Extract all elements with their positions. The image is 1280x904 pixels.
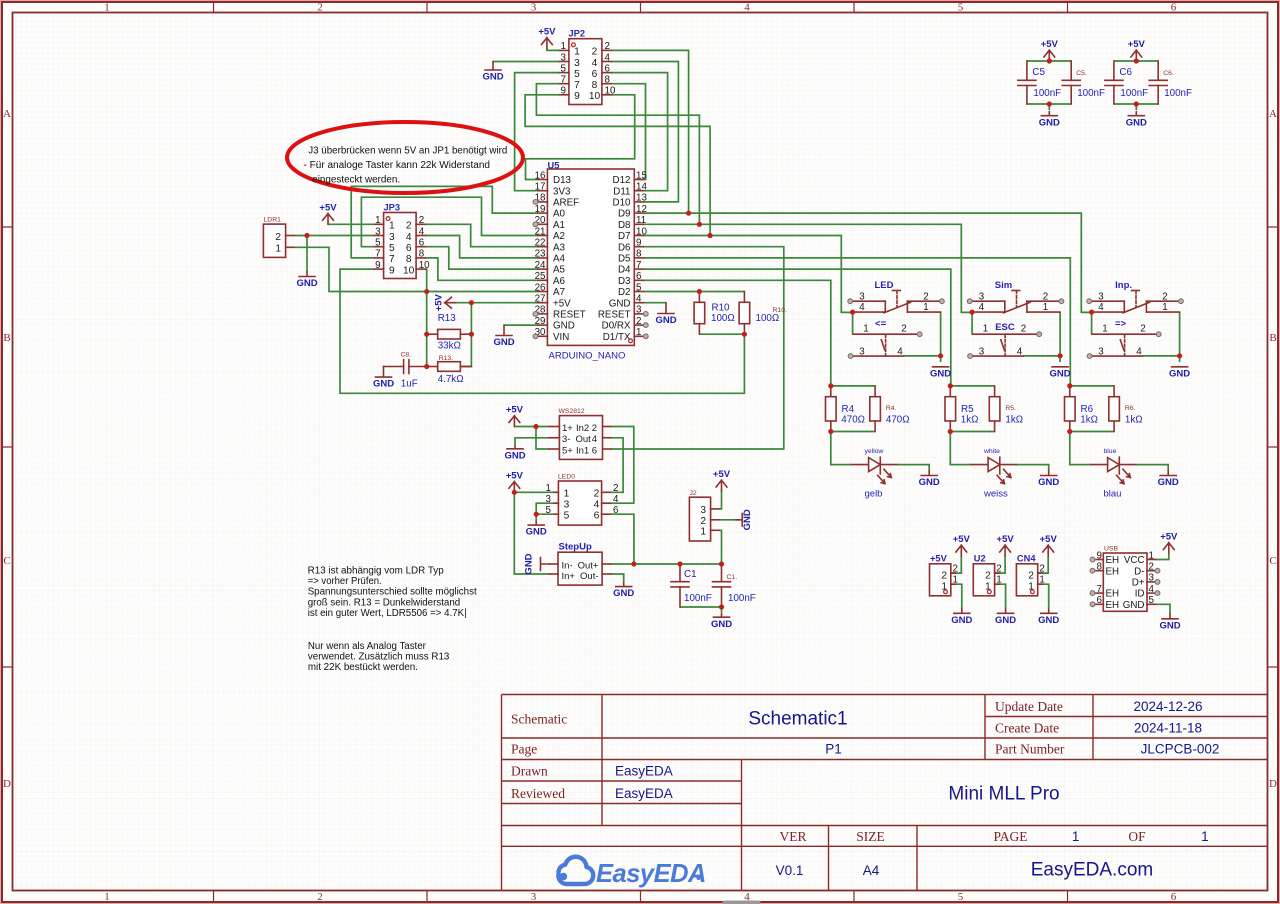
power +5V at U5 pin27 (rotated) [434,293,456,311]
svg-text:1: 1 [996,575,1001,586]
svg-text:2: 2 [1162,291,1167,302]
wire R6/blau bottom link [1070,431,1114,433]
svg-text:Sim: Sim [995,280,1012,291]
svg-text:21: 21 [535,226,546,237]
svg-text:7: 7 [389,254,395,265]
svg-text:4: 4 [636,294,642,305]
svg-text:3: 3 [859,346,865,357]
svg-text:3: 3 [531,2,537,14]
svg-text:1kΩ: 1kΩ [1005,414,1023,425]
resistor R6 [1065,386,1076,432]
svg-text:verwendet. Zusätzlich muss R13: verwendet. Zusätzlich muss R13 [308,651,450,662]
svg-text:7: 7 [636,260,641,271]
resistor R13 [427,329,472,339]
capacitor C8 [384,360,427,374]
LED blau (blue) [1091,457,1136,483]
svg-text:OF: OF [1128,829,1146,844]
wire U5 D6 to WS2812 In1 [611,247,784,449]
svg-text:VER: VER [780,829,807,844]
svg-text:Part Number: Part Number [995,742,1065,757]
svg-text:StepUp: StepUp [559,542,592,553]
svg-text:A4: A4 [863,863,880,878]
svg-text:1: 1 [1162,302,1167,313]
svg-text:6: 6 [592,69,598,80]
svg-text:9: 9 [561,86,566,97]
power +5V at J2 [713,469,731,491]
wire R5/weiss LED cathode to GND [1016,465,1048,471]
svg-text:4: 4 [1098,302,1104,313]
svg-text:P1: P1 [825,742,842,757]
wire R5/weiss to LED anode [950,432,971,465]
svg-text:GND: GND [296,278,317,289]
svg-text:+5V: +5V [713,469,731,480]
wire U5 D4 to R5 [643,269,951,386]
svg-text:+5V: +5V [319,202,337,213]
wire WS2812 +5V to pin1 [514,426,549,428]
ground at Sim switch [1050,367,1071,380]
resistor R5. [989,386,1000,432]
svg-text:GND: GND [1126,117,1147,128]
svg-text:9: 9 [389,265,395,276]
wire U5 D8 to Sim switch [643,224,972,312]
svg-text:Mini MLL Pro: Mini MLL Pro [948,784,1059,805]
power +5V at JP2 [538,27,556,49]
svg-text:white: white [983,448,1000,455]
title block text [511,699,1219,881]
svg-text:JP2: JP2 [569,29,586,39]
svg-text:D0/RX: D0/RX [602,321,631,332]
svg-text:5: 5 [375,238,381,249]
svg-text:27: 27 [535,294,546,305]
svg-text:ID: ID [1135,589,1145,600]
svg-text:4: 4 [1136,346,1142,357]
svg-text:3: 3 [1149,573,1155,584]
connector JP3 [375,213,431,279]
svg-text:GND: GND [553,321,575,332]
svg-text:2: 2 [996,563,1001,574]
svg-text:1uF: 1uF [401,379,418,390]
svg-text:16: 16 [535,170,546,181]
wire U5 D2 to R10 [643,291,744,293]
svg-text:Page: Page [511,742,537,757]
svg-text:EH: EH [1106,589,1120,600]
svg-text:R13: R13 [438,313,457,324]
wire CN4 pin1 to GND [1038,584,1049,608]
wire StepUp Out+ rail [611,563,722,565]
svg-text:4: 4 [1017,346,1023,357]
svg-text:2: 2 [941,571,947,582]
wire C5 +5V rail [1027,60,1071,62]
svg-text:9: 9 [1097,550,1102,561]
svg-text:5: 5 [546,505,552,516]
svg-text:1: 1 [564,489,570,500]
svg-text:C5.: C5. [1076,70,1087,77]
svg-text:blue: blue [1104,448,1117,455]
svg-text:25: 25 [535,271,546,282]
svg-text:RESET: RESET [553,310,586,321]
IC U5 ARDUINO_NANO [535,169,648,345]
svg-text:+5V: +5V [1041,39,1059,50]
svg-text:1: 1 [983,324,988,335]
svg-text:LED: LED [875,280,894,291]
power +5V at C5 [1041,39,1059,61]
svg-text:+5V: +5V [553,298,571,309]
svg-text:A: A [3,108,11,120]
wire U2 pin2 to +5V [995,556,1006,573]
wire JP2 pin9 to U5 D7 [525,95,710,236]
svg-text:D8: D8 [618,220,631,231]
svg-text:V0.1: V0.1 [776,863,804,878]
svg-text:D4: D4 [618,265,631,276]
power +5V at JP3 [319,202,337,224]
svg-text:3: 3 [1098,346,1104,357]
svg-text:4.7kΩ: 4.7kΩ [438,374,464,385]
svg-text:GND: GND [1038,615,1059,626]
svg-text:D: D [3,778,11,790]
svg-text:1: 1 [1102,324,1107,335]
svg-text:1: 1 [636,327,641,338]
svg-text:7: 7 [574,80,580,91]
ground at CN4 [1038,609,1059,626]
wire U5 D3 to R4 [643,280,831,386]
resistor R4 [826,386,837,432]
wire U5 D7 to LED switch [643,236,852,313]
svg-text:GND: GND [655,315,676,326]
svg-text:10: 10 [589,91,601,102]
svg-text:+5V: +5V [953,534,971,545]
svg-text:4: 4 [979,302,985,313]
wire LDR1 pin1 to U5 A7 [294,247,538,291]
svg-text:5: 5 [564,511,570,522]
svg-text:8: 8 [1097,562,1103,573]
svg-text:R13 ist abhängig vom LDR Typ: R13 ist abhängig vom LDR Typ [308,566,445,577]
svg-text:2: 2 [275,232,281,243]
wire R4/gelb top link [831,385,875,387]
svg-text:R6.: R6. [1125,405,1136,412]
svg-text:100Ω: 100Ω [756,313,780,324]
svg-text:1: 1 [953,575,958,586]
svg-text:9: 9 [636,238,641,249]
svg-text:4: 4 [897,346,903,357]
svg-text:eingesteckt werden.: eingesteckt werden. [312,174,400,185]
svg-text:10: 10 [403,265,415,276]
svg-text:1: 1 [561,41,566,52]
svg-text:6: 6 [594,511,600,522]
IC WS2812 [549,416,611,460]
svg-text:3: 3 [636,305,642,316]
svg-text:+5V: +5V [506,470,524,481]
svg-text:GND: GND [951,615,972,626]
svg-text:Spannungsunterschied sollte mö: Spannungsunterschied sollte möglichst [308,587,477,598]
DC converter StepUp [549,552,611,585]
svg-text:ARDUINO_NANO: ARDUINO_NANO [549,351,626,361]
svg-text:LDR1: LDR1 [264,217,282,224]
svg-text:5: 5 [636,282,642,293]
power +5V at CN4 [1040,534,1058,556]
EasyEDA logo [558,857,706,888]
svg-text:D9: D9 [618,209,631,220]
wire JP3 pin7 to U5 A0 [351,186,538,258]
svg-text:3: 3 [531,891,537,903]
svg-text:2: 2 [1039,563,1044,574]
svg-text:D: D [1269,778,1277,790]
svg-text:GND: GND [1039,117,1060,128]
wire WS2812 pin3 to GND [515,438,549,445]
svg-text:2: 2 [419,215,424,226]
svg-text:A7: A7 [553,287,565,298]
svg-text:J2: J2 [690,490,697,497]
svg-text:D2: D2 [618,287,631,298]
svg-text:100Ω: 100Ω [711,313,735,324]
svg-text:GND: GND [919,477,940,488]
connector USB [1094,550,1156,611]
ground at U5 pin29 [493,326,514,348]
wire U5 D9 to Inp switch [643,213,1091,312]
wire JP2 pin4 to U5 D10 [611,62,678,202]
svg-text:2: 2 [901,324,906,335]
svg-text:+5V: +5V [1128,39,1146,50]
wire LDR1 pin2 GND branch [306,236,308,273]
svg-text:2: 2 [1021,324,1026,335]
svg-text:- Für analoge Taster kann 22k: - Für analoge Taster kann 22k Widerstand [304,160,491,171]
svg-text:In1: In1 [576,445,589,456]
svg-text:6: 6 [613,505,619,516]
svg-text:1: 1 [700,527,706,538]
svg-text:GND: GND [1050,368,1071,379]
svg-text:C6: C6 [1119,67,1132,78]
wire JP3 pin8 to U5 A6 [425,258,538,280]
svg-text:=>: => [1115,319,1127,330]
wire CON1 pin1 to GND [951,584,962,608]
svg-text:A5: A5 [553,265,566,276]
svg-text:EH: EH [1106,566,1120,577]
svg-text:2: 2 [592,423,597,434]
wire Inp switch pin1 to GND [1143,312,1180,362]
svg-text:5: 5 [1149,595,1155,606]
svg-text:C6.: C6. [1163,70,1174,77]
svg-text:R4.: R4. [886,405,897,412]
resistor R4. [870,386,881,432]
wire R4/gelb to LED anode [831,432,852,465]
svg-text:470Ω: 470Ω [886,414,910,425]
svg-text:GND: GND [609,298,631,309]
svg-text:3: 3 [564,500,570,511]
wire JP2 pin8 to U5 D12 [611,84,646,180]
svg-text:GND: GND [742,509,753,530]
svg-text:VIN: VIN [553,332,569,343]
wire WS2812 In2 to LED0 pin4 [554,427,633,504]
connector J2 [689,497,719,541]
svg-text:GND: GND [373,379,394,390]
svg-text:C1.: C1. [727,574,738,581]
svg-text:D7: D7 [618,231,631,242]
svg-text:3: 3 [1098,291,1104,302]
wire J2 pin3 to +5V [719,491,721,509]
resistor R10 [694,292,705,335]
svg-text:GND: GND [482,72,503,83]
wire JP2 pin10 to U5 D13 [526,95,635,180]
svg-text:4: 4 [592,434,597,445]
svg-text:9: 9 [574,91,580,102]
svg-text:+5V: +5V [930,554,948,564]
connector U2 [973,563,1001,595]
svg-text:Drawn: Drawn [511,764,548,779]
svg-text:6: 6 [592,445,597,456]
svg-text:GND: GND [711,619,732,630]
svg-text:6: 6 [1171,2,1177,14]
svg-text:Schematic: Schematic [511,712,567,727]
wire LED switch pin1 to GND [904,312,941,362]
wire LED0 +5V rail to StepUp In+ [514,492,549,574]
svg-text:JLCPCB-002: JLCPCB-002 [1141,742,1220,757]
svg-text:4: 4 [419,226,425,237]
svg-text:Schematic1: Schematic1 [748,709,847,730]
svg-text:1: 1 [1039,575,1044,586]
svg-text:2: 2 [594,489,600,500]
svg-text:GND: GND [1158,477,1179,488]
svg-text:17: 17 [535,182,546,193]
svg-text:1: 1 [1149,550,1154,561]
ground at LED gelb [919,471,940,488]
svg-text:2024-11-18: 2024-11-18 [1134,721,1202,736]
resistor R6. [1109,386,1120,432]
wire JP2 pin3 to GND [493,61,560,63]
svg-text:D10: D10 [613,198,632,209]
connector JP2 [560,39,616,105]
svg-text:19: 19 [535,204,546,215]
wire U5 +5V pin27 [455,302,538,304]
svg-text:EasyEDA.com: EasyEDA.com [1031,860,1153,881]
wire JP2 pin6 to U5 D11 [611,73,668,191]
annotation ellipse [287,122,523,193]
svg-text:2: 2 [605,41,610,52]
wire U5 GND pin4 [643,302,666,305]
svg-text:2: 2 [1149,562,1154,573]
wire JP3 pin5 to U5 A2 [361,197,538,247]
svg-text:A4: A4 [553,254,566,265]
svg-text:A: A [1269,108,1277,120]
svg-text:1: 1 [1201,829,1209,844]
svg-text:=> vorher Prüfen.: => vorher Prüfen. [308,576,382,587]
connector LED0 [546,481,619,525]
capacitor C5 [1018,61,1036,104]
svg-text:2: 2 [1043,291,1048,302]
svg-text:+5V: +5V [1160,532,1178,543]
ground at U2 [995,609,1016,626]
svg-text:+5V: +5V [1040,534,1058,545]
svg-text:C: C [1269,555,1276,567]
svg-text:1: 1 [104,2,110,14]
wire +5V to R13 right [462,303,471,367]
svg-text:B: B [3,332,10,344]
wire JP3 pin2 to U5 A3 [425,224,538,246]
ground at C8 [373,367,394,390]
svg-text:CN4: CN4 [1017,554,1036,564]
svg-text:D6: D6 [618,242,631,253]
svg-text:4: 4 [592,58,598,69]
svg-text:2024-12-26: 2024-12-26 [1133,699,1202,714]
svg-text:5: 5 [389,243,395,254]
wire R6/blau LED cathode to GND [1136,465,1168,471]
svg-text:2: 2 [923,291,928,302]
svg-text:100nF: 100nF [1164,88,1192,99]
svg-text:U5: U5 [548,161,560,171]
power +5V at U2 [997,534,1015,556]
capacitor C1. [713,564,731,607]
svg-text:1+: 1+ [562,423,573,434]
capacitor C1 [671,564,689,607]
wire R4/gelb LED cathode to GND [897,465,929,471]
svg-text:1: 1 [546,483,551,494]
svg-text:5: 5 [561,63,567,74]
svg-text:8: 8 [592,80,598,91]
svg-text:GND: GND [1159,620,1180,631]
svg-text:GND: GND [1038,477,1059,488]
svg-text:1: 1 [1072,829,1080,844]
svg-text:Create Date: Create Date [995,721,1059,736]
svg-text:24: 24 [535,260,546,271]
svg-text:ist ein guter Wert, LDR5506 =>: ist ein guter Wert, LDR5506 => 4.7K| [308,608,467,619]
wire LED switch pin4 to lower switch [852,312,854,334]
svg-text:In+: In+ [562,571,576,582]
svg-text:groß sein. R13 = Dunkelwiderst: groß sein. R13 = Dunkelwiderstand [308,597,461,608]
svg-text:7: 7 [561,75,566,86]
svg-text:3: 3 [561,52,567,63]
svg-text:Reviewed: Reviewed [511,786,565,801]
ground at LED switch [930,367,951,380]
svg-text:6: 6 [1171,891,1177,903]
svg-text:2: 2 [613,483,618,494]
wire C1 bottom to GND [680,607,722,612]
wire junction dots [304,58,1182,609]
svg-text:2: 2 [1140,324,1145,335]
svg-text:100nF: 100nF [1033,88,1061,99]
wire JP2 pin2 to U5 D9 [611,50,689,213]
svg-text:GND: GND [930,368,951,379]
svg-text:EasyEDA: EasyEDA [615,786,673,801]
wire JP3 pin4 to U5 A4 [425,236,538,258]
svg-text:100nF: 100nF [1120,88,1148,99]
ground at U5 pin4 [655,304,676,327]
wire U5 GND pin29 [504,324,538,327]
ground at Inp switch [1169,367,1190,380]
svg-text:J3 überbrücken wenn 5V an JP1: J3 überbrücken wenn 5V an JP1 benötigt w… [308,146,507,157]
svg-text:EasyEDA: EasyEDA [615,764,673,779]
svg-text:100nF: 100nF [1077,88,1105,99]
svg-text:A0: A0 [553,209,566,220]
svg-text:8: 8 [406,254,412,265]
svg-text:5: 5 [574,69,580,80]
svg-text:6: 6 [419,238,425,249]
wire R4/gelb bottom link [831,431,875,433]
ground at CON1 [951,609,972,626]
ground at USB [1159,614,1180,632]
switch Inp (DPST) [1092,291,1180,358]
svg-text:3: 3 [389,232,395,243]
photoresistor LDR1 [263,224,294,257]
wire J2 pin1 down [719,530,721,564]
svg-text:D13: D13 [553,175,572,186]
wire USB pin1 to +5V [1156,554,1169,560]
svg-text:4: 4 [744,2,750,14]
wire Inp switch pin4 to lower switch [1091,312,1093,334]
svg-text:2: 2 [700,516,706,527]
svg-text:1: 1 [863,324,868,335]
LED gelb (yellow) [852,457,897,483]
scrollbar thumb [723,901,761,904]
wire JP3 pin6 to U5 A5 [425,247,538,269]
svg-text:1: 1 [275,244,281,255]
